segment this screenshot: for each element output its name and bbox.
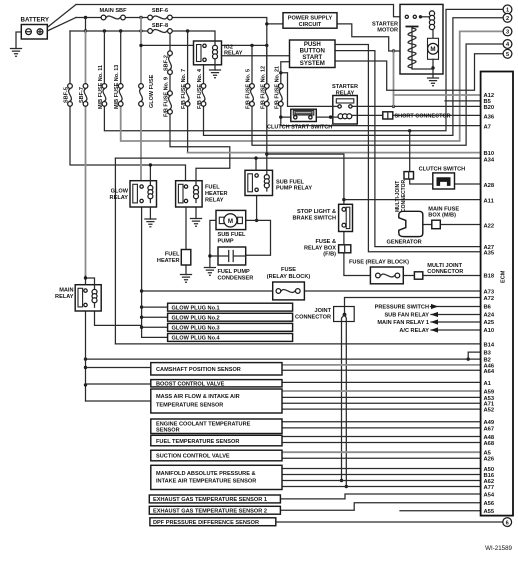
svg-text:A49: A49 [484, 420, 495, 426]
box glow plug no3 [168, 323, 293, 331]
svg-text:A72: A72 [484, 296, 495, 302]
svg-text:GENERATOR: GENERATOR [387, 240, 422, 246]
svg-text:FUSE: FUSE [281, 267, 296, 273]
wire M/B13 to circled 3 (gray) [121, 31, 504, 141]
wire push button to circled 5 [335, 54, 503, 91]
wire A12 vertical (gray) [393, 51, 395, 106]
box glow plug no2 [168, 313, 293, 321]
wire clutch start switch to relay coil [316, 116, 333, 118]
wire boost row A1 [282, 381, 481, 383]
wire IG2 to push button [222, 55, 290, 57]
fuse SBF-8 [148, 29, 172, 34]
fuse F/B FUSE No.21 [278, 84, 283, 107]
node B20 junction [392, 105, 395, 108]
svg-text:M: M [430, 46, 435, 53]
wire to stop light and brake switch [267, 154, 344, 204]
ground fuel heater relay coil [191, 219, 202, 227]
wire fuel heater element column [185, 203, 187, 275]
fuse SBF-6 [148, 15, 172, 20]
circled 1 [503, 5, 512, 14]
node glow plug taps [140, 289, 143, 292]
ground fuel pump condenser [204, 268, 215, 276]
wire main feed y17.5 [76, 18, 267, 84]
svg-text:A28: A28 [484, 183, 495, 189]
wire fuel temp rows [282, 437, 481, 443]
wire GLOW FUSE column (gray) [140, 18, 142, 184]
svg-text:POWER SUPPLY: POWER SUPPLY [288, 16, 333, 22]
svg-text:GLOW FUSE: GLOW FUSE [149, 74, 155, 108]
wire IG2 coil ground stem [214, 65, 216, 70]
node sub pump junction [255, 219, 258, 222]
svg-text:A68: A68 [484, 441, 495, 447]
arrow ac relay [431, 327, 438, 332]
ECM box [481, 72, 513, 516]
ground IG2 relay [210, 70, 221, 78]
box exhaust gas temperature sensor 2 [149, 506, 280, 514]
svg-text:RELAY: RELAY [110, 195, 129, 201]
box manifold absolute pressure sensor [151, 465, 282, 489]
multi joint connector symbol lower [414, 272, 422, 279]
box fuel temperature sensor [151, 435, 282, 446]
svg-text:CONDENSER: CONDENSER [218, 276, 254, 282]
generator [399, 211, 423, 236]
svg-text:A59: A59 [484, 390, 495, 396]
svg-text:MAIN SBF: MAIN SBF [99, 8, 127, 14]
wire battery to ground [16, 32, 21, 49]
wire A36 row short connector [357, 114, 481, 116]
wire A7 row from clutch start switch node [281, 117, 481, 126]
svg-text:A11: A11 [484, 198, 495, 204]
svg-text:MAIN FAN RELAY 1: MAIN FAN RELAY 1 [377, 320, 429, 326]
svg-text:JOINT: JOINT [315, 308, 332, 314]
node clutch start switch tee [279, 115, 282, 118]
wire IG2 to F/B FUSE No.4 and circled 2 [204, 18, 504, 136]
relay fuel heater [176, 181, 203, 207]
fuse and relay box FB symbol [339, 245, 351, 253]
svg-text:FUSE &: FUSE & [315, 239, 336, 245]
svg-text:F/B FUSE No. 21: F/B FUSE No. 21 [274, 66, 280, 109]
svg-text:RELAY: RELAY [336, 90, 355, 96]
starter motor assembly [400, 4, 443, 74]
svg-text:BATTERY: BATTERY [21, 17, 50, 24]
wire glow plug feeds [142, 307, 168, 337]
svg-text:CONNECTOR: CONNECTOR [401, 179, 407, 212]
circled 6 [503, 518, 512, 527]
wire manifold rows [282, 469, 481, 487]
svg-text:6: 6 [506, 520, 509, 526]
svg-text:HEATER: HEATER [205, 191, 228, 197]
wire B3 jumper [468, 352, 480, 359]
svg-text:M/B FUSE No. 11: M/B FUSE No. 11 [98, 65, 104, 109]
box engine coolant temperature sensor [151, 419, 282, 434]
svg-text:A56: A56 [484, 501, 495, 507]
svg-text:A55: A55 [484, 509, 495, 515]
wire A55 stub [400, 510, 481, 512]
node stop light tap [265, 152, 268, 155]
wire boost valve feed [86, 383, 151, 385]
node B2 junctions [84, 357, 87, 360]
wire A28 row [455, 183, 481, 185]
wire sub fan relay arrow row A24 [431, 314, 481, 316]
wire B2 row [86, 358, 481, 360]
svg-text:GLOW: GLOW [111, 189, 129, 195]
svg-text:SENSOR: SENSOR [156, 428, 180, 434]
svg-text:CLUTCH START SWITCH: CLUTCH START SWITCH [267, 125, 332, 131]
svg-text:STARTER: STARTER [332, 84, 358, 90]
wire mass air flow rows [282, 390, 481, 392]
relay IG2 [194, 41, 222, 65]
circled 3 [503, 27, 512, 36]
wire M/B FUSE No.13 column [120, 31, 122, 83]
svg-text:CIRCUIT: CIRCUIT [299, 22, 322, 28]
svg-text:A34: A34 [484, 157, 495, 163]
svg-text:FUEL: FUEL [165, 252, 180, 258]
wire stop light down to fuse relay block 2 [344, 231, 481, 276]
box push button start system [290, 40, 336, 68]
svg-text:A77: A77 [484, 485, 495, 491]
svg-text:M: M [228, 218, 233, 225]
svg-text:IG2: IG2 [224, 45, 233, 51]
wire A11 row [344, 199, 481, 201]
node F/B21 junction [279, 71, 282, 74]
svg-text:SBF-2: SBF-2 [164, 55, 170, 71]
wire SBF-5 column [70, 31, 186, 184]
fuel pump condenser [218, 247, 246, 265]
fuse relay block 1 [273, 282, 305, 300]
svg-text:BOOST CONTROL VALVE: BOOST CONTROL VALVE [156, 381, 225, 387]
svg-text:CONNECTOR: CONNECTOR [295, 314, 331, 320]
wire B10 row (gray) [188, 152, 481, 154]
relay starter [333, 96, 358, 125]
svg-text:(F/B): (F/B) [323, 252, 336, 258]
box camshaft position sensor [151, 363, 282, 375]
box boost control valve [151, 380, 282, 387]
svg-text:MAIN FUSE: MAIN FUSE [428, 206, 459, 212]
arrow main fan relay [431, 319, 438, 324]
svg-text:(RELAY BLOCK): (RELAY BLOCK) [267, 274, 311, 280]
relay main [75, 285, 101, 311]
svg-text:RELAY BOX: RELAY BOX [304, 245, 336, 251]
wire fuse relay block 1 row A73 [142, 290, 481, 292]
wire push button to A35 [335, 45, 481, 252]
wire F/B FUSE No.5 column to circled 4 [252, 44, 503, 145]
wire B5 stub [445, 100, 481, 102]
fuel heater element [181, 250, 191, 266]
fuse F/B FUSE No.4 [201, 84, 206, 107]
wire A34 row with sub relay contact tap [115, 158, 480, 172]
svg-text:SUB FUEL: SUB FUEL [218, 232, 247, 238]
svg-text:GLOW PLUG No.2: GLOW PLUG No.2 [172, 316, 220, 322]
wire generator output A22 [423, 224, 481, 226]
clutch switch [433, 173, 455, 189]
wire power supply to starter solenoid [337, 24, 406, 51]
svg-text:A10: A10 [484, 328, 495, 334]
svg-text:B18: B18 [484, 274, 495, 280]
svg-text:SUB FUEL: SUB FUEL [276, 179, 305, 185]
svg-text:TEMPERATURE SENSOR: TEMPERATURE SENSOR [156, 403, 223, 409]
sub fuel pump motor [216, 210, 246, 229]
fuse relay block 2 [370, 267, 403, 284]
node joint connector [343, 313, 347, 317]
svg-text:ENGINE COOLANT TEMPERATURE: ENGINE COOLANT TEMPERATURE [156, 421, 251, 427]
fuse MAIN SBF [101, 15, 125, 20]
svg-text:GLOW PLUG No.3: GLOW PLUG No.3 [172, 326, 220, 332]
circled 2 [503, 13, 512, 22]
fuse F/B FUSE No.7 [185, 84, 190, 107]
ground battery [11, 49, 22, 57]
svg-text:FUSE (RELAY BLOCK): FUSE (RELAY BLOCK) [349, 260, 409, 266]
wire camshaft sensor feed [86, 367, 151, 369]
wire IG2 contact line [141, 44, 267, 46]
svg-text:WI-21589: WI-21589 [485, 545, 512, 552]
wire dpf sensor to circled 6 [276, 521, 503, 523]
svg-text:B10: B10 [484, 151, 495, 157]
svg-text:MOTOR: MOTOR [377, 28, 398, 34]
svg-text:EXHAUST GAS TEMPERATURE SENSOR: EXHAUST GAS TEMPERATURE SENSOR 1 [153, 497, 267, 503]
wire to starter relay contact [281, 73, 333, 107]
short connector [383, 112, 393, 119]
wire battery diagonals [44, 5, 76, 33]
wire M/B FUSE No.11 column to circled 1 [104, 9, 503, 130]
svg-text:A67: A67 [484, 426, 495, 432]
svg-text:FUEL PUMP: FUEL PUMP [218, 269, 250, 275]
node junctions y17.5 [84, 16, 87, 19]
svg-text:A/C RELAY: A/C RELAY [399, 328, 429, 334]
wire suction valve rows [282, 451, 481, 453]
svg-text:A22: A22 [484, 223, 495, 229]
svg-text:MASS AIR FLOW & INTAKE AIR: MASS AIR FLOW & INTAKE AIR [156, 394, 240, 400]
wire main line to bus drop [85, 18, 87, 32]
battery [21, 25, 47, 40]
box dpf pressure difference sensor [150, 518, 276, 526]
wire main relay coil branch [95, 307, 142, 325]
svg-text:A7: A7 [484, 124, 491, 130]
ground fuel heater [181, 275, 192, 283]
wire left wrap down to B14 [114, 158, 116, 344]
svg-text:A25: A25 [484, 320, 495, 326]
svg-text:A26: A26 [484, 457, 495, 463]
svg-text:MULTI JOINT: MULTI JOINT [427, 263, 462, 269]
svg-text:SYSTEM: SYSTEM [300, 60, 325, 67]
svg-text:ECM: ECM [501, 270, 507, 283]
wire B14 row [115, 343, 480, 345]
box glow plug no4 [168, 334, 293, 342]
wire joint connector pair down [342, 315, 347, 487]
svg-text:1: 1 [506, 8, 509, 14]
svg-text:A24: A24 [484, 313, 495, 319]
stop light and brake switch [339, 204, 353, 231]
node joint connector tap [408, 129, 411, 132]
svg-text:MANIFOLD ABSOLUTE PRESSURE &: MANIFOLD ABSOLUTE PRESSURE & [156, 471, 256, 477]
svg-text:FUEL: FUEL [205, 185, 220, 191]
wire exhaust 1 to A54 [280, 494, 480, 499]
fuse SBF-5 [68, 84, 73, 107]
svg-text:CAMSHAFT POSITION SENSOR: CAMSHAFT POSITION SENSOR [156, 367, 241, 373]
arrow sub fan relay [431, 312, 438, 317]
wire sub fuel pump motor right [246, 220, 271, 255]
node sensor feed junctions [84, 366, 87, 369]
wire sub fuel pump motor left to condenser [210, 220, 218, 267]
wire F/B FUSE No.21 column [281, 62, 291, 117]
node solenoid feed [403, 49, 406, 52]
wire exhaust 2 to A56 [280, 503, 480, 510]
wire main relay lower column [85, 307, 87, 401]
wire main fan relay arrow row A25 [431, 321, 481, 323]
svg-text:A35: A35 [484, 250, 495, 256]
circled 5 [503, 49, 512, 58]
wire bus y31 [70, 31, 215, 41]
node A11 tap [342, 198, 345, 201]
box glow plug no1 [168, 303, 293, 311]
wire F/B FUSE No.7 column [187, 31, 189, 153]
svg-text:A64: A64 [484, 369, 495, 375]
wire glow relay coil ground stem [149, 203, 151, 220]
fuse F/B FUSE No.12 [264, 84, 269, 107]
wire power supply branch [267, 23, 283, 25]
clutch start switch [291, 109, 317, 121]
fuse SBF-7 [83, 84, 88, 107]
box exhaust gas temperature sensor 1 [149, 495, 280, 503]
svg-text:F/B FUSE No. 12: F/B FUSE No. 12 [260, 66, 266, 109]
arrow pressure switch [431, 304, 438, 309]
svg-text:M/B FUSE No. 13: M/B FUSE No. 13 [114, 65, 120, 109]
svg-text:SUCTION CONTROL VALVE: SUCTION CONTROL VALVE [156, 454, 230, 460]
joint connector box [334, 307, 355, 322]
node relay coil junction [329, 115, 332, 118]
fuse M/B FUSE No.13 [118, 84, 123, 107]
svg-text:5: 5 [506, 52, 509, 58]
node IG2 line junctions [139, 44, 142, 47]
svg-text:PRESSURE SWITCH: PRESSURE SWITCH [375, 305, 429, 311]
svg-text:SBF-5: SBF-5 [64, 87, 70, 103]
svg-text:3: 3 [506, 30, 509, 36]
svg-text:A36: A36 [484, 114, 495, 120]
wire top rail to starter motor [76, 5, 404, 17]
node main relay feed [84, 276, 87, 279]
svg-text:B3: B3 [484, 350, 492, 356]
wire fuel heater relay coil ground stem [195, 203, 197, 219]
svg-text:SBF-6: SBF-6 [152, 8, 168, 14]
wire A12 row (gray) [394, 94, 481, 96]
box mass air flow sensor [151, 389, 282, 413]
wire camshaft rows A46 gray A64 [282, 364, 481, 366]
svg-text:A1: A1 [484, 381, 492, 387]
svg-text:PUMP: PUMP [218, 238, 234, 244]
wire push button to A27 [335, 51, 481, 247]
wire SBF-2 / F/B FUSE No.9 column [170, 31, 230, 184]
svg-text:A54: A54 [484, 492, 495, 498]
svg-text:CONNECTOR: CONNECTOR [427, 269, 463, 275]
wire B20 row from starter relay [357, 105, 481, 107]
svg-text:B6: B6 [484, 305, 492, 311]
svg-text:B14: B14 [484, 342, 495, 348]
wire engine coolant rows [282, 422, 481, 428]
relay glow [130, 181, 157, 207]
svg-text:B20: B20 [484, 105, 495, 111]
svg-text:RELAY: RELAY [224, 51, 243, 57]
node junctions y31 [84, 29, 87, 32]
wire ac relay arrow row A10 [431, 329, 481, 331]
svg-text:SBF-8: SBF-8 [152, 23, 168, 29]
node A34 contact tap [254, 156, 257, 159]
multi joint connector symbol upper [404, 172, 414, 179]
svg-text:A52: A52 [484, 408, 495, 414]
fuse SBF-2 [168, 51, 173, 75]
svg-text:GLOW PLUG No.1: GLOW PLUG No.1 [172, 305, 220, 311]
svg-text:MAIN: MAIN [59, 288, 73, 294]
main fuse box MB symbol [432, 220, 441, 229]
svg-text:F/B FUSE No. 9: F/B FUSE No. 9 [164, 77, 170, 117]
svg-text:F/B FUSE No. 7: F/B FUSE No. 7 [181, 69, 187, 109]
svg-text:DPF PRESSURE DIFFERENCE SENSOR: DPF PRESSURE DIFFERENCE SENSOR [153, 520, 259, 526]
circled 4 [503, 40, 512, 49]
node condenser tap [208, 254, 211, 257]
svg-text:F/B FUSE No. 4: F/B FUSE No. 4 [197, 68, 203, 109]
relay sub fuel pump [245, 170, 273, 195]
svg-text:2: 2 [506, 16, 509, 22]
ground glow relay coil [145, 219, 156, 227]
wire joint connector up branch [345, 298, 481, 315]
wire SBF-7 column (gray) [85, 31, 87, 277]
box suction control valve [151, 450, 282, 461]
node joint connector row taps [340, 479, 343, 482]
svg-text:EXHAUST GAS TEMPERATURE SENSOR: EXHAUST GAS TEMPERATURE SENSOR 2 [153, 509, 267, 515]
svg-text:F/B FUSE No. 5: F/B FUSE No. 5 [246, 69, 252, 109]
box power supply circuit [283, 13, 337, 29]
wire main relay feeds [86, 276, 95, 289]
fuse GLOW FUSE [139, 84, 144, 107]
svg-text:SHORT CONNECTOR: SHORT CONNECTOR [395, 113, 451, 119]
svg-text:GLOW PLUG No.4: GLOW PLUG No.4 [172, 336, 221, 342]
svg-text:BRAKE SWITCH: BRAKE SWITCH [292, 216, 336, 222]
svg-text:SBF-7: SBF-7 [79, 87, 85, 103]
wire mass air flow feed [86, 400, 151, 402]
svg-text:INTAKE AIR TEMPERATURE SENSOR: INTAKE AIR TEMPERATURE SENSOR [156, 478, 256, 484]
svg-text:FUEL TEMPERATURE SENSOR: FUEL TEMPERATURE SENSOR [156, 439, 239, 445]
svg-text:PUMP RELAY: PUMP RELAY [276, 186, 312, 192]
svg-text:RELAY: RELAY [55, 294, 74, 300]
wire pressure switch arrow row B6 [431, 306, 481, 308]
svg-text:CLUTCH SWITCH: CLUTCH SWITCH [419, 166, 466, 172]
fuse F/B FUSE No.9 [168, 91, 173, 114]
wire glow relay output column [141, 203, 143, 338]
wire sub fuel pump relay output [256, 192, 258, 221]
svg-text:BOX (M/B): BOX (M/B) [428, 213, 456, 219]
fuse M/B FUSE No.11 [102, 84, 107, 107]
svg-text:SUB FAN RELAY: SUB FAN RELAY [384, 313, 429, 319]
wire glow relay coil tap [149, 165, 151, 184]
svg-text:RELAY: RELAY [205, 197, 224, 203]
svg-text:A73: A73 [484, 290, 495, 296]
svg-text:STARTER: STARTER [372, 21, 398, 27]
wire clutch switch drop from circled1 line [410, 131, 433, 184]
node SBF-5 line glow coil [149, 163, 152, 166]
ground starter motor [428, 74, 439, 86]
svg-text:STOP LIGHT &: STOP LIGHT & [297, 209, 336, 215]
fuse F/B FUSE No.5 [250, 84, 255, 107]
svg-text:HEATER: HEATER [157, 258, 180, 264]
wire F/B FUSE No.12 column [266, 45, 268, 170]
